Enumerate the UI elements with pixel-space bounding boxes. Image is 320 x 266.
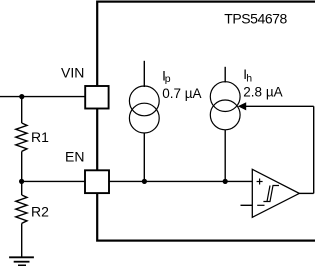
svg-text:2.8 µA: 2.8 µA xyxy=(243,84,282,99)
svg-text:p: p xyxy=(165,73,171,85)
svg-text:h: h xyxy=(246,72,252,84)
svg-text:R1: R1 xyxy=(31,129,49,145)
svg-text:TPS54678: TPS54678 xyxy=(224,11,287,27)
svg-text:VIN: VIN xyxy=(61,64,84,80)
svg-text:R2: R2 xyxy=(31,203,49,219)
svg-text:EN: EN xyxy=(65,149,84,165)
svg-text:0.7 µA: 0.7 µA xyxy=(162,86,201,101)
